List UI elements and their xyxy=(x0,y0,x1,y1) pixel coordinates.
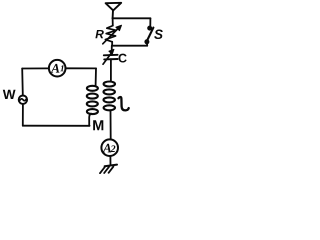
ammeter A1 xyxy=(49,60,66,77)
wire coil M to bottom wire xyxy=(89,114,91,126)
switch S1 xyxy=(145,18,154,45)
wire A2 to ground xyxy=(109,157,111,166)
wire left loop top xyxy=(22,67,48,69)
wire coil L to ammeter A2 xyxy=(110,111,112,139)
inductor L (secondary coil) xyxy=(104,82,116,111)
wire switch return xyxy=(112,45,147,47)
inductor M (primary coil) xyxy=(87,86,98,114)
label L xyxy=(119,97,129,110)
ground xyxy=(100,165,117,174)
antenna xyxy=(106,3,122,18)
label C xyxy=(119,54,127,63)
label M xyxy=(93,120,103,130)
resistor R1 xyxy=(103,25,122,44)
capacitor C1 xyxy=(103,46,118,64)
wire left loop bottom xyxy=(23,125,90,127)
label S xyxy=(154,29,163,39)
wire main vertical to resistor xyxy=(112,18,114,25)
wire left loop right side to coil M xyxy=(95,68,97,85)
label W xyxy=(3,90,16,99)
source W (buzzer) xyxy=(19,96,27,104)
wire antenna to switch branch xyxy=(113,17,151,19)
ammeter A2 xyxy=(101,139,118,156)
wire capacitor to coil L xyxy=(110,59,112,81)
wire left loop left side lower xyxy=(22,105,24,126)
label R xyxy=(95,30,103,38)
wire resistor to cap junction xyxy=(111,42,113,46)
wire left loop left side upper xyxy=(21,69,24,95)
